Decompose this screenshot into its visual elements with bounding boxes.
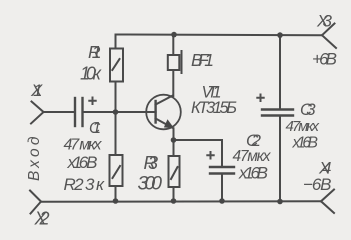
resistor R1 [115,35,117,49]
wire bottom rail [41,200,321,203]
wire top rail [116,34,323,37]
node C3 top [277,32,283,38]
node emitter [171,137,177,143]
node C3 bottom [277,199,283,205]
polarity + C1 [88,97,96,106]
svg-text:−6В: −6В [303,175,332,194]
svg-text:10 к: 10 к [80,64,103,84]
svg-text:х16 В: х16 В [67,153,98,172]
capacitor C3 [262,110,293,116]
node BF1 top [171,32,177,38]
svg-text:X1: X1 [30,81,43,100]
resistor R2 [115,112,117,155]
svg-text:BF1: BF1 [191,50,214,70]
node base junction [113,109,119,115]
node R2 bottom [113,198,119,204]
svg-text:КТ315Б: КТ315Б [191,99,237,117]
wire C1 to base node [84,111,116,113]
resistor R3 [173,140,175,156]
capacitor C2 [210,167,234,174]
wire base node to transistor base [116,111,156,113]
node R3 bottom [171,198,177,204]
svg-text:47мкх: 47мкх [233,148,272,165]
terminal X1 [31,102,44,124]
terminal X3 [322,24,336,49]
svg-text:C1: C1 [89,120,101,137]
terminal X4 [321,190,334,214]
wire C3 top [279,35,281,110]
svg-text:47мкх: 47мкх [286,118,320,135]
terminal X2 [30,191,41,214]
svg-text:X2: X2 [34,209,50,228]
svg-text:X3: X3 [316,12,333,31]
wire X1 to C1 [44,111,74,113]
svg-text:C3: C3 [300,101,316,119]
capacitor C1 [75,98,83,126]
svg-text:R1: R1 [88,42,102,62]
wire C3 bottom [279,116,281,202]
svg-text:х16В: х16В [292,135,319,152]
svg-text:+6В: +6В [312,50,337,69]
svg-text:х16В: х16В [238,164,268,183]
svg-text:47 мкх: 47 мкх [64,137,103,154]
wire emitter node to C2 [174,140,223,167]
node C2 bottom [219,198,225,204]
headphone BF1 [172,35,174,56]
svg-text:R3: R3 [144,153,159,173]
polarity + C2 [206,151,214,160]
emitter arrow [165,120,174,128]
transistor VT1 [146,95,181,130]
polarity + C3 [256,94,264,103]
svg-text:300: 300 [138,173,163,195]
svg-text:R2 3 к: R2 3 к [64,175,105,194]
